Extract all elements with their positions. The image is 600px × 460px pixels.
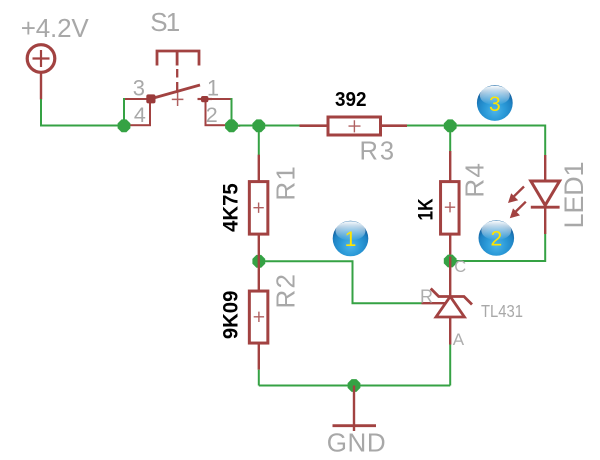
wire R2 to bottom rail [258,370,260,386]
svg-text:GND: GND [327,428,386,458]
wire supply to switch [41,99,124,126]
supply V1 circle symbol [27,45,55,73]
switch S1 bracket [157,51,199,66]
switch S1 dashed actuator line [176,69,178,92]
junction at supply/box4 [118,119,131,132]
LED1 arrow 2 [510,202,526,219]
switch S1 pin box 1-2 [206,99,232,125]
svg-text:R3: R3 [360,138,395,166]
switch S1 pin box 3-4 [124,99,150,125]
resistor R2 origin cross [254,312,264,322]
svg-text:9K09: 9K09 [220,291,243,340]
TL431 triangle [436,297,464,318]
junction R4 top [444,119,457,132]
node 2 ball [479,220,515,256]
wire right box edge [231,98,233,126]
svg-text:TL431: TL431 [481,301,523,321]
svg-text:R: R [420,286,433,306]
resistor R3 body [328,117,381,135]
LED1 arrow 1 [508,187,524,204]
switch S1 pin 2 stub [232,125,241,127]
TL431 cathode pin [449,257,451,297]
svg-text:R4: R4 [460,163,490,198]
resistor R2 bottom pin [258,343,260,370]
resistor R1 top pin [258,155,260,181]
wire node1 horizontal [259,261,422,303]
switch S1 pin 3 dot [146,94,155,103]
svg-text:1K: 1K [414,199,437,221]
wire R4 top pin net [449,126,451,152]
svg-text:A: A [453,330,465,349]
resistor R3 left pin [300,124,329,127]
svg-text:2: 2 [206,103,218,127]
resistor R1 origin cross [253,203,263,213]
svg-text:1: 1 [207,75,219,100]
junction box2 [225,119,238,132]
switch S1 pin 1 dot [201,96,208,102]
wire box2 to R3 [232,125,301,127]
svg-text:+4.2V: +4.2V [21,13,90,43]
LED1 bottom pin [544,207,546,234]
svg-text:3: 3 [489,93,501,116]
junction R4/LED/TL431 [444,255,457,268]
wire bottom rail [259,385,450,387]
switch S1 origin cross [172,93,184,107]
wire left box edge [123,98,125,126]
svg-text:4: 4 [134,103,146,127]
svg-text:R1: R1 [270,166,300,201]
TL431 cathode bar with hooks [431,289,472,305]
svg-text:4K75: 4K75 [220,183,243,232]
svg-text:S1: S1 [150,7,180,37]
resistor R3 origin cross [349,120,361,132]
resistor R4 bottom pin [449,235,451,257]
wire down to R1 [258,126,260,156]
switch S1 pin 1 stub [198,98,213,100]
LED1 triangle [531,181,560,205]
node 1 ball [333,221,369,257]
ground bar [333,424,377,427]
wire TL431 anode down [449,345,451,386]
svg-text:3: 3 [133,75,145,100]
ground stem [353,386,355,432]
wire R3 to corner [407,125,545,127]
wire LED bottom [450,234,545,261]
junction R1 column top [252,119,265,132]
svg-text:392: 392 [335,89,367,111]
TL431 anode pin [449,317,451,345]
supply pin [40,73,42,100]
svg-text:R2: R2 [270,274,300,309]
junction R1/R2 node [252,255,265,268]
resistor R1 body [249,182,268,235]
junction GND [348,379,361,392]
resistor R4 top pin [449,151,451,181]
svg-text:C: C [454,258,466,276]
svg-text:1: 1 [345,228,357,251]
TL431 reference pin [422,302,446,304]
resistor R2 body [249,291,268,343]
switch S1 lever [150,85,200,99]
resistor R4 origin cross [445,202,455,212]
resistor R4 body [441,182,460,235]
resistor R3 right pin [381,124,407,127]
svg-text:LED1: LED1 [559,162,589,229]
node 3 ball [477,85,513,121]
svg-text:2: 2 [490,228,502,251]
LED1 cathode wire from top [544,155,546,182]
wire corner down to LED [544,125,546,156]
LED1 cathode bar [531,206,560,209]
resistor R2 top pin continuous from R1 [258,235,260,291]
